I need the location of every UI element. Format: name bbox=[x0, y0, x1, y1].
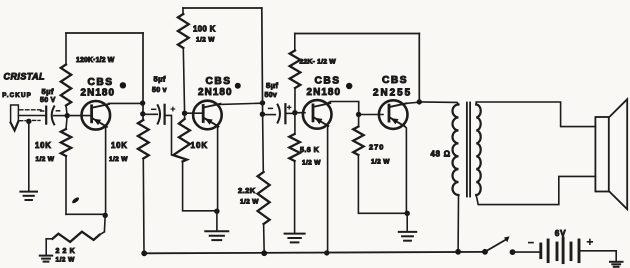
wire (battery to ground) bbox=[579, 251, 616, 261]
switch S1 bbox=[482, 236, 515, 255]
wire (Q2 emitter down) bbox=[217, 126, 219, 211]
resistor R5 100K ½W bbox=[178, 8, 216, 113]
node B (Q1 emitter junction) bbox=[103, 213, 108, 218]
svg-text:2N180: 2N180 bbox=[198, 87, 233, 98]
svg-text:50 v: 50 v bbox=[152, 87, 167, 94]
wire (base node to Q2) bbox=[185, 112, 203, 114]
svg-text:48 Ω: 48 Ω bbox=[431, 150, 451, 159]
svg-text:1/2 W: 1/2 W bbox=[109, 156, 128, 163]
svg-text:10K: 10K bbox=[191, 141, 209, 150]
wire (secondary top to speaker) bbox=[476, 102, 595, 127]
wire (bottom supply rail) bbox=[144, 252, 485, 253]
ground G4 bbox=[285, 234, 305, 243]
wire (L to ground) bbox=[406, 213, 408, 231]
node K (Q4 base / R10) bbox=[356, 112, 361, 117]
wire (Q4 collector) bbox=[406, 102, 420, 103]
speaker LS1 bbox=[595, 99, 627, 209]
resistor R3 10K ½W bbox=[109, 120, 149, 253]
svg-text:10K: 10K bbox=[35, 141, 52, 150]
wire (D to C2) bbox=[143, 113, 158, 115]
wire (H to C3) bbox=[262, 114, 275, 116]
svg-text:50v: 50v bbox=[265, 92, 278, 99]
wire (F to ground) bbox=[216, 211, 218, 231]
svg-text:10K: 10K bbox=[111, 141, 128, 150]
battery BT1 6V bbox=[529, 229, 592, 263]
svg-text:5µf: 5µf bbox=[154, 75, 166, 84]
node J (Q3 emitter on rail) bbox=[324, 250, 329, 255]
resistor R8 22K ½W bbox=[290, 34, 337, 113]
wire (R2 to emitter node) bbox=[66, 213, 105, 215]
svg-text:2N255: 2N255 bbox=[373, 88, 412, 99]
transistor Q1 CBS 2N180 bbox=[81, 77, 116, 130]
svg-text:120K·1/2 W: 120K·1/2 W bbox=[76, 57, 115, 64]
svg-text:CBS: CBS bbox=[206, 76, 232, 87]
transformer T1 primary bbox=[431, 105, 459, 196]
svg-text:5µf: 5µf bbox=[266, 81, 278, 90]
svg-text:1/2 W: 1/2 W bbox=[36, 156, 55, 163]
svg-text:CRISTAL: CRISTAL bbox=[4, 71, 45, 81]
node P (T1 primary on rail) bbox=[455, 249, 461, 255]
node N (R3 to rail) bbox=[141, 250, 147, 256]
svg-text:100 K: 100 K bbox=[193, 25, 216, 34]
node O (R7 to rail) bbox=[261, 250, 267, 256]
wire (collector rail stage 2) bbox=[261, 8, 264, 114]
resistor R10 270 ½W bbox=[353, 115, 406, 214]
crystal pickup PU1 bbox=[2, 71, 45, 130]
capacitor C2 5µf 50V bbox=[152, 75, 175, 124]
wire (top rail stage 2) bbox=[183, 7, 262, 9]
ground G5 bbox=[399, 232, 416, 241]
wire (Q3 emitter down) bbox=[327, 125, 329, 253]
wire (top rail stage 1) bbox=[66, 32, 143, 34]
svg-text:1/2 W: 1/2 W bbox=[371, 159, 390, 166]
resistor R7 2.2K ½W bbox=[238, 114, 270, 253]
resistor R1 120K ½W bbox=[61, 33, 115, 116]
node shield junction bbox=[26, 119, 31, 124]
node C (Q1 collector) bbox=[140, 100, 145, 105]
svg-text:2N180: 2N180 bbox=[307, 87, 342, 98]
wire (R6 bottom to emitter node) bbox=[183, 162, 217, 211]
svg-text:2N180: 2N180 bbox=[81, 88, 116, 99]
wire (C2 output tap) bbox=[165, 115, 174, 155]
wire (Q4 emitter down) bbox=[404, 126, 406, 214]
capacitor C1 5µf 50V bbox=[40, 87, 60, 124]
node M (Q4 collector) bbox=[417, 99, 422, 104]
wire (Q2 collector) bbox=[217, 103, 263, 104]
node F (Q2 emitter junction) bbox=[214, 209, 219, 214]
wire (top rail stage 3) bbox=[295, 33, 420, 35]
node A (Q1 base) bbox=[65, 113, 70, 118]
wire (C1 to base node) bbox=[54, 115, 65, 117]
node H (C3 tap) bbox=[260, 112, 265, 117]
ground G1 bbox=[20, 192, 37, 200]
svg-text:22K- 1/2 W: 22K- 1/2 W bbox=[300, 59, 337, 66]
svg-text:1/2 W: 1/2 W bbox=[240, 199, 259, 206]
ground G6 bbox=[610, 262, 623, 267]
node G (Q2 collector) bbox=[260, 100, 265, 105]
svg-text:P.CKUP: P.CKUP bbox=[2, 92, 32, 99]
ground G3 bbox=[205, 231, 228, 240]
transistor Q2 CBS 2N180 bbox=[193, 76, 233, 129]
transistor Q4 CBS 2N255 bbox=[373, 75, 412, 129]
svg-text:1/2 W: 1/2 W bbox=[56, 257, 76, 264]
svg-text:5µf: 5µf bbox=[42, 87, 54, 96]
svg-text:1/2 W: 1/2 W bbox=[302, 160, 321, 167]
svg-text:2.2K: 2.2K bbox=[238, 186, 256, 195]
wire (emitter node to R4) bbox=[103, 215, 106, 232]
svg-text:CBS: CBS bbox=[88, 77, 114, 88]
svg-text:2 2 K: 2 2 K bbox=[56, 248, 76, 255]
svg-text:CBS: CBS bbox=[382, 75, 408, 86]
wire (Q1 emitter down) bbox=[105, 126, 107, 215]
node D (C2 tap) bbox=[140, 111, 145, 116]
wire (collector to T1 primary) bbox=[419, 102, 458, 105]
wire (base node to Q1) bbox=[67, 115, 92, 117]
svg-text:270: 270 bbox=[369, 143, 384, 152]
wire (S1 to battery) bbox=[513, 251, 540, 253]
svg-text:5.6 K: 5.6 K bbox=[300, 145, 320, 154]
svg-text:6V: 6V bbox=[555, 229, 567, 238]
wire (shield to ground) bbox=[28, 121, 30, 191]
svg-text:CBS: CBS bbox=[315, 76, 341, 87]
resistor R4 2.2K ½W bbox=[46, 232, 104, 264]
transistor Q3 CBS 2N180 bbox=[303, 76, 341, 129]
transformer T1 core bbox=[467, 103, 470, 197]
resistor R6 10K bbox=[173, 113, 208, 161]
node L (Q4 emitter junction) bbox=[405, 211, 410, 216]
wire (primary to bottom rail) bbox=[457, 195, 459, 252]
wire (rail down to collector) bbox=[418, 34, 420, 102]
wire (Q3 collector to Q4 base) bbox=[326, 102, 383, 115]
capacitor C3 5µf 50V bbox=[265, 81, 291, 123]
node I (Q3 base) bbox=[292, 110, 297, 115]
transformer T1 secondary bbox=[476, 105, 481, 196]
wire (collector rail stage 1) bbox=[142, 33, 144, 120]
wire (pickup to C1) bbox=[18, 115, 45, 117]
svg-text:1/2 W: 1/2 W bbox=[196, 37, 215, 44]
wire (C3 to base node) bbox=[285, 112, 293, 114]
node E (Q2 base) bbox=[182, 111, 187, 116]
resistor R9 5.6K ½W bbox=[289, 113, 321, 233]
resistor R2 10K ½W bbox=[35, 116, 71, 215]
wire (Q1 collector) bbox=[109, 102, 144, 104]
ground G2 bbox=[40, 256, 52, 262]
wire (base node to Q3) bbox=[295, 112, 305, 114]
svg-text:50 V: 50 V bbox=[40, 97, 56, 104]
wire (pickup shield dashes) bbox=[20, 110, 42, 121]
wire (secondary bottom to speaker) bbox=[476, 176, 595, 204]
